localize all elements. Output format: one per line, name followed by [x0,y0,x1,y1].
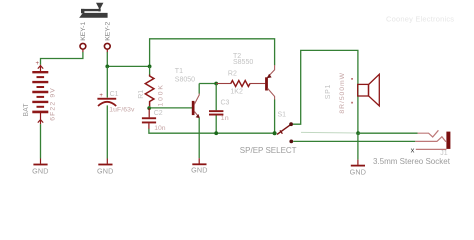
node C junction (R1 / C2 / T1 base) [147,106,151,110]
battery BAT top pin arrow [38,65,43,72]
battery BAT plates [32,72,48,112]
T1 emitter [194,111,199,117]
resistor R2 [216,83,231,85]
svg-text:GND: GND [191,165,208,174]
svg-text:6F22 9V: 6F22 9V [49,87,56,121]
resistor R1 [149,66,151,75]
svg-text:8R/500mW: 8R/500mW [339,72,346,114]
svg-text:R2: R2 [228,70,237,77]
svg-text:+: + [36,61,40,67]
svg-text:C3: C3 [221,99,230,106]
connector pad KEY-1 [80,43,86,49]
svg-text:S1: S1 [278,111,287,118]
wire lower contact to jack ring [293,140,415,142]
svg-text:BAT: BAT [23,103,30,117]
node A junction (KEY-2 / C1 / bus) [105,65,109,69]
wire node C to T1 base [149,107,192,109]
wire KEY-1 to battery + [41,52,83,65]
capacitor C1 curved plate [98,102,116,106]
svg-text:100K: 100K [157,83,164,106]
svg-text:R1: R1 [138,90,145,99]
svg-text:C1: C1 [110,91,119,98]
svg-text:x: x [411,145,415,154]
svg-text:S8050: S8050 [175,76,195,83]
jack J1 ring contact [415,137,446,142]
svg-text:S8550: S8550 [233,59,253,66]
svg-text:10n: 10n [154,125,166,132]
connector pad KEY-2 [104,43,110,49]
wire C2 to ground bus [148,123,150,129]
wire battery to ground [40,124,42,158]
ground (T1) [192,163,206,165]
morse key icon [79,3,107,18]
svg-text:GND: GND [32,166,49,175]
svg-text:SP/EP SELECT: SP/EP SELECT [240,146,297,155]
wire T1 emitter to ground [198,118,200,158]
speaker SP1 [358,84,369,96]
svg-text:1n: 1n [221,115,229,122]
wire T1 collector to node D [199,83,216,85]
ground (speaker) [351,165,365,167]
wire upper contact to speaker top [293,50,358,133]
switch S1 upper contact [289,122,293,126]
node B junction (bus / R1 top) [148,65,152,69]
switch S1 common junction [273,131,277,135]
wire speaker bottom to ground [357,133,359,159]
switch S1 lever [277,125,290,135]
svg-text:T1: T1 [175,68,183,75]
jack J1 sleeve stub [416,148,447,150]
svg-text:1K2: 1K2 [230,88,243,95]
wire C3 to ground bus [215,116,217,134]
svg-text:GND: GND [350,167,367,176]
T2 emitter [267,65,274,78]
T2 collector [268,88,275,99]
svg-text:SP1: SP1 [325,84,332,99]
wire top bus to T2 emitter [150,39,275,67]
capacitor C1 top plate [97,98,116,100]
node F junction (speaker bottom / jack tip) [356,131,360,135]
jack J1 body bar [446,132,450,149]
battery BAT bottom pin arrow [38,113,43,125]
T1 collector [194,93,199,104]
capacitor C2 [148,108,150,117]
node E junction (C3 / ground bus) [214,131,218,135]
svg-text:KEY-2: KEY-2 [105,22,112,41]
ground (C1) [98,164,112,166]
jack J1 tip contact [418,130,439,137]
faint bus segment [301,131,358,134]
ground (battery) [33,164,47,166]
svg-text:3.5mm Stereo Socket: 3.5mm Stereo Socket [373,157,451,166]
pin stub KEY-2 [106,49,108,52]
wire node A to node B (main bus) [107,65,149,67]
svg-text:C2: C2 [154,110,163,117]
svg-text:1uF/63v: 1uF/63v [109,106,135,113]
svg-text:KEY-1: KEY-1 [80,22,87,41]
wire C1 to ground [106,105,108,158]
transistor T2 (PNP S8550) [265,77,268,90]
switch S1 lower contact [289,140,293,144]
svg-text:GND: GND [97,166,114,175]
wire KEY-2 down to node A [106,52,108,66]
wire node F to jack tip contact [358,132,417,134]
wire R1 bottom to node C [149,106,151,108]
pin stub KEY-1 [82,49,84,52]
capacitor C3 [215,84,217,111]
transistor T1 (NPN S8050) [192,101,195,115]
node D junction (collector / R2 / C3) [214,82,218,86]
svg-text:Cooney Electronics: Cooney Electronics [386,14,454,23]
wire node A down to C1 [106,66,108,97]
svg-text:J1: J1 [440,150,448,157]
